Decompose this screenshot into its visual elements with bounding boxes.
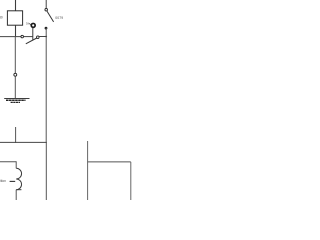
ring terminal 30 <box>31 23 35 27</box>
wire from top edge into box <box>15 0 17 11</box>
wire from ring terminal down across feed wire <box>32 28 34 40</box>
ground symbol bottom hatched bar <box>11 101 20 103</box>
connector circle on ground wire <box>14 73 17 76</box>
leader line from label to coil <box>10 180 16 182</box>
leader line to ring terminal <box>29 23 32 24</box>
bus wire down right side of switch group <box>45 28 47 142</box>
wire from right contact to node at x=46.2 <box>39 36 47 38</box>
top switch terminal circle <box>45 8 48 11</box>
coil bottom tick <box>16 189 21 191</box>
coil windings <box>16 168 21 189</box>
svg-text:0079: 0079 <box>55 16 63 20</box>
top switch: wire from top edge <box>45 0 47 8</box>
ground symbol top bar <box>4 97 29 99</box>
switch terminal (left contact circle) <box>21 35 24 38</box>
right riser from lower area to bottom edge <box>87 141 89 200</box>
top switch blade (open) <box>47 11 54 22</box>
component box J30 <box>7 11 22 25</box>
ground symbol middle hatched bar <box>6 99 26 101</box>
wire from connector to ground <box>14 76 16 98</box>
wire between left contact and ring-terminal drop <box>24 36 34 38</box>
branch wire to the right <box>88 161 131 163</box>
junction dot below top switch <box>45 27 48 30</box>
coil bottom lead to bottom edge <box>15 190 17 200</box>
coil top lead <box>15 161 17 168</box>
wire from switch row down to connector <box>14 37 16 74</box>
wire from box bottom to horizontal wire <box>15 25 17 37</box>
bus wire continues to bottom edge <box>45 142 47 200</box>
switch terminal (right contact circle) <box>37 36 40 39</box>
junction node on bus <box>45 36 47 38</box>
svg-text:ition: ition <box>0 179 6 183</box>
svg-text:J30: J30 <box>0 16 3 20</box>
coil branch: horizontal lead from left edge <box>0 161 16 163</box>
wire: horizontal feed at y=36.6 from left edge to switch terminal <box>0 36 21 38</box>
switch blade (open, from lower left up to right contact) <box>26 38 37 44</box>
lower horizontal bus <box>0 141 47 143</box>
right branch drop to bottom edge <box>130 162 132 200</box>
dangling riser above lower bus <box>15 127 17 143</box>
